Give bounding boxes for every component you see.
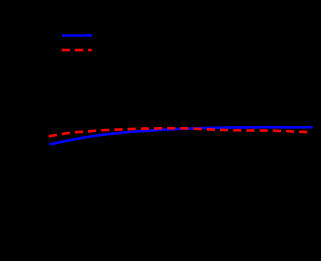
legend sample line 1 (blue solid) [62, 34, 92, 37]
red dashed curve [49, 128, 309, 136]
legend sample line 2 (red dashed) [62, 49, 92, 52]
blue solid curve [49, 127, 312, 144]
